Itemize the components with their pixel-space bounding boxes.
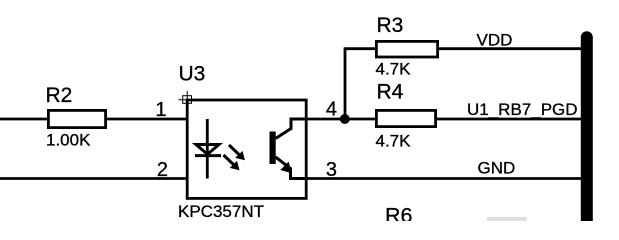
optocoupler U3 body box	[187, 100, 306, 198]
LED cathode bar	[195, 154, 221, 157]
connector bus bar	[581, 37, 593, 228]
svg-text:U3: U3	[179, 63, 206, 86]
junction node dot	[340, 114, 350, 124]
wire U3 pin4 to R4	[306, 118, 376, 121]
svg-text:4.7K: 4.7K	[376, 132, 412, 151]
wire R3 to VDD rail	[438, 47, 584, 50]
transistor emitter path	[276, 157, 307, 179]
wire net2 to U3 pin2	[0, 177, 188, 180]
LED vertical lead inside U3	[206, 119, 209, 179]
LED diode triangle	[196, 145, 219, 155]
svg-text:VDD: VDD	[477, 31, 513, 50]
wire U3 pin3 GND to rail	[306, 177, 584, 180]
wire junction up	[344, 49, 347, 119]
light arrow 1	[229, 145, 245, 160]
svg-text:R3: R3	[377, 14, 404, 37]
svg-text:U1_RB7_PGD: U1_RB7_PGD	[467, 100, 578, 119]
svg-text:3: 3	[326, 159, 337, 181]
transistor Q base bar	[270, 132, 276, 165]
svg-text:R4: R4	[377, 81, 404, 104]
svg-text:4.7K: 4.7K	[376, 60, 412, 79]
wire R2 to U3 pin1	[107, 118, 188, 121]
svg-text:KPC357NT: KPC357NT	[178, 202, 264, 221]
svg-text:1.00K: 1.00K	[46, 131, 91, 150]
svg-text:2: 2	[157, 159, 168, 181]
light arrow 2	[224, 155, 240, 170]
wire net1 left segment to R2	[0, 118, 48, 121]
wire R4 to rail	[437, 118, 584, 121]
transistor emitter arrowhead	[280, 162, 292, 174]
svg-text:1: 1	[155, 99, 166, 121]
svg-text:R6: R6	[385, 203, 413, 221]
resistor R4	[376, 110, 435, 126]
U3 origin crosshair	[179, 91, 197, 105]
faint clipped text bottom right	[487, 217, 527, 221]
resistor R3	[376, 41, 437, 57]
transistor collector path	[276, 119, 307, 139]
svg-text:R2: R2	[46, 84, 73, 107]
svg-text:GND: GND	[478, 159, 516, 178]
resistor R2	[48, 110, 105, 127]
svg-text:4: 4	[326, 99, 337, 121]
wire junction corner to R3	[344, 47, 376, 50]
